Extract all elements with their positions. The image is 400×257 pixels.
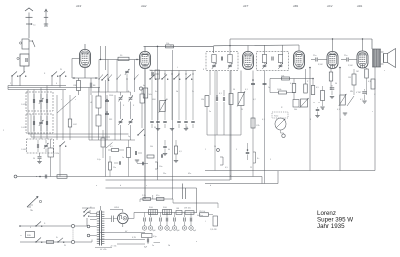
- svg-text:0,1: 0,1: [245, 89, 248, 91]
- svg-text:o: o: [230, 175, 231, 177]
- svg-text:1n: 1n: [268, 87, 270, 89]
- svg-text:42n: 42n: [188, 173, 191, 175]
- svg-text:3: 3: [310, 119, 311, 121]
- svg-text:1W 10k: 1W 10k: [184, 208, 191, 210]
- svg-text:5: 5: [340, 119, 341, 121]
- svg-text:2,5M: 2,5M: [348, 65, 353, 67]
- svg-text:V 267: V 267: [356, 92, 362, 94]
- svg-text:8: 8: [203, 69, 204, 71]
- svg-text:2p: 2p: [128, 136, 130, 138]
- svg-text:W: W: [64, 245, 66, 247]
- svg-text:1M: 1M: [348, 77, 351, 79]
- svg-text:0,1: 0,1: [337, 109, 340, 111]
- svg-text:L: L: [177, 67, 178, 69]
- svg-text:AH2: AH2: [140, 4, 147, 8]
- svg-text:1.G610: 1.G610: [21, 149, 27, 151]
- svg-text:0,5: 0,5: [316, 87, 319, 89]
- svg-text:533: 533: [109, 119, 112, 121]
- svg-text:5c: 5c: [192, 91, 194, 93]
- svg-text:10k: 10k: [166, 43, 169, 45]
- svg-text:1.G11: 1.G11: [21, 127, 26, 129]
- svg-text:4,5µ: 4,5µ: [153, 236, 157, 238]
- svg-text:30: 30: [186, 127, 188, 129]
- svg-text:e: e: [196, 241, 197, 243]
- svg-text:0,1: 0,1: [262, 119, 265, 121]
- svg-text:1W 10k: 1W 10k: [199, 211, 205, 213]
- svg-text:5: 5: [236, 149, 237, 151]
- svg-text:30H: 30H: [163, 207, 167, 209]
- svg-text:AB1: AB1: [292, 4, 299, 8]
- svg-text:5-2µ: 5-2µ: [97, 159, 101, 161]
- svg-text:1n: 1n: [122, 157, 124, 159]
- svg-text:W: W: [60, 69, 62, 71]
- svg-text:0,1: 0,1: [290, 83, 293, 85]
- svg-text:50k: 50k: [149, 94, 152, 96]
- svg-text:2n: 2n: [209, 111, 211, 113]
- svg-text:c: c: [146, 185, 147, 187]
- svg-text:30: 30: [33, 158, 35, 160]
- svg-text:1Gn: 1Gn: [159, 166, 162, 168]
- svg-text:50: 50: [335, 83, 337, 85]
- svg-text:~: ~: [318, 101, 320, 105]
- svg-text:AC2: AC2: [326, 4, 333, 8]
- svg-text:3,5M: 3,5M: [318, 64, 323, 66]
- svg-text:0: 0: [30, 227, 31, 229]
- svg-text:0,1: 0,1: [360, 99, 363, 101]
- svg-text:~: ~: [313, 101, 315, 105]
- svg-text:6: 6: [56, 83, 57, 85]
- svg-text:2: 2: [10, 83, 11, 85]
- svg-text:0,5: 0,5: [225, 167, 228, 169]
- svg-text:c: c: [75, 99, 76, 101]
- svg-text:1.G110: 1.G110: [21, 104, 27, 106]
- svg-text:d: d: [210, 185, 211, 187]
- svg-text:25n: 25n: [113, 167, 116, 169]
- svg-text:AF7: AF7: [242, 4, 249, 8]
- svg-text:5b: 5b: [176, 91, 178, 93]
- svg-text:25n: 25n: [344, 55, 347, 57]
- svg-text:4k: 4k: [168, 149, 170, 151]
- svg-text:C12k: C12k: [55, 153, 60, 155]
- svg-text:1M: 1M: [356, 71, 359, 73]
- svg-text:30H: 30H: [149, 207, 153, 209]
- svg-text:25n: 25n: [313, 55, 316, 57]
- svg-text:2b: 2b: [168, 245, 170, 247]
- svg-text:8: 8: [128, 91, 129, 93]
- svg-text:J5k: J5k: [201, 99, 204, 101]
- svg-text:~: ~: [20, 234, 22, 238]
- svg-text:W: W: [166, 99, 168, 101]
- svg-text:c: c: [372, 111, 373, 113]
- svg-text:0,1: 0,1: [110, 146, 113, 148]
- svg-text:10k: 10k: [281, 76, 284, 78]
- svg-text:W: W: [241, 109, 243, 111]
- svg-text:1,2k 5W: 1,2k 5W: [210, 229, 217, 231]
- svg-text:Jahr 1935: Jahr 1935: [317, 223, 345, 230]
- svg-text:25n: 25n: [163, 173, 166, 175]
- svg-text:2,2k: 2,2k: [142, 195, 146, 197]
- svg-text:0,3: 0,3: [368, 81, 371, 83]
- svg-text:50k: 50k: [150, 146, 153, 148]
- svg-text:50: 50: [233, 89, 235, 91]
- svg-text:5: 5: [270, 159, 271, 161]
- svg-text:AD1: AD1: [356, 4, 363, 8]
- svg-text:2: 2: [3, 130, 4, 132]
- svg-text:100k: 100k: [277, 89, 281, 91]
- svg-text:1: 1: [205, 149, 206, 151]
- svg-text:C2k: C2k: [256, 125, 260, 127]
- svg-text:4V ±15k: 4V ±15k: [100, 249, 107, 251]
- svg-text:5N4: 5N4: [152, 99, 155, 101]
- svg-text:+4 / 15k: +4 / 15k: [110, 246, 117, 248]
- svg-text:0,1: 0,1: [219, 93, 222, 95]
- svg-text:c: c: [61, 99, 62, 101]
- svg-text:1500: 1500: [109, 95, 113, 97]
- svg-text:AF3: AF3: [75, 4, 82, 8]
- svg-text:30: 30: [154, 127, 156, 129]
- svg-text:C8k: C8k: [73, 85, 77, 87]
- svg-text:25: 25: [250, 167, 252, 169]
- svg-text:0,2: 0,2: [253, 99, 256, 101]
- svg-text:50k: 50k: [294, 109, 297, 111]
- svg-text:30: 30: [322, 109, 324, 111]
- svg-text:62n: 62n: [156, 195, 159, 197]
- svg-text:30: 30: [214, 146, 216, 148]
- svg-text:0,3: 0,3: [179, 151, 182, 153]
- svg-text:b: b: [120, 185, 121, 187]
